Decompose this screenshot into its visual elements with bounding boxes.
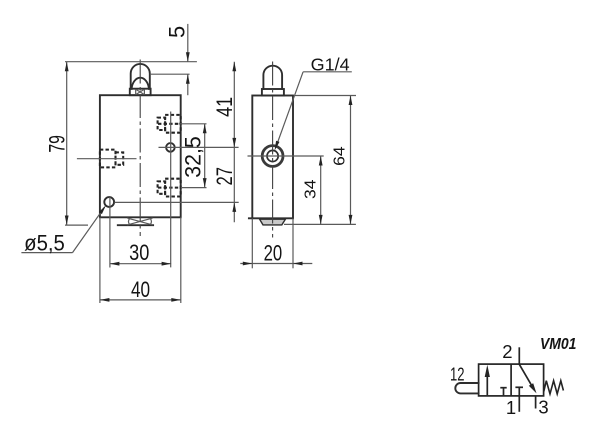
svg-text:2: 2 (502, 341, 512, 362)
svg-text:34: 34 (303, 179, 320, 199)
svg-text:27: 27 (212, 167, 237, 186)
svg-text:1: 1 (506, 397, 516, 418)
svg-text:30: 30 (129, 240, 149, 265)
svg-text:20: 20 (264, 240, 283, 265)
svg-text:G1/4: G1/4 (311, 55, 350, 75)
svg-text:12: 12 (450, 364, 465, 385)
svg-text:40: 40 (131, 277, 150, 302)
svg-text:64: 64 (331, 146, 348, 166)
svg-text:32,5: 32,5 (180, 136, 205, 178)
svg-text:5: 5 (165, 26, 190, 38)
svg-text:ø5,5: ø5,5 (24, 231, 65, 256)
svg-text:3: 3 (538, 397, 548, 418)
svg-text:VM01: VM01 (540, 336, 577, 353)
svg-text:79: 79 (45, 135, 70, 153)
svg-text:41: 41 (212, 97, 237, 117)
